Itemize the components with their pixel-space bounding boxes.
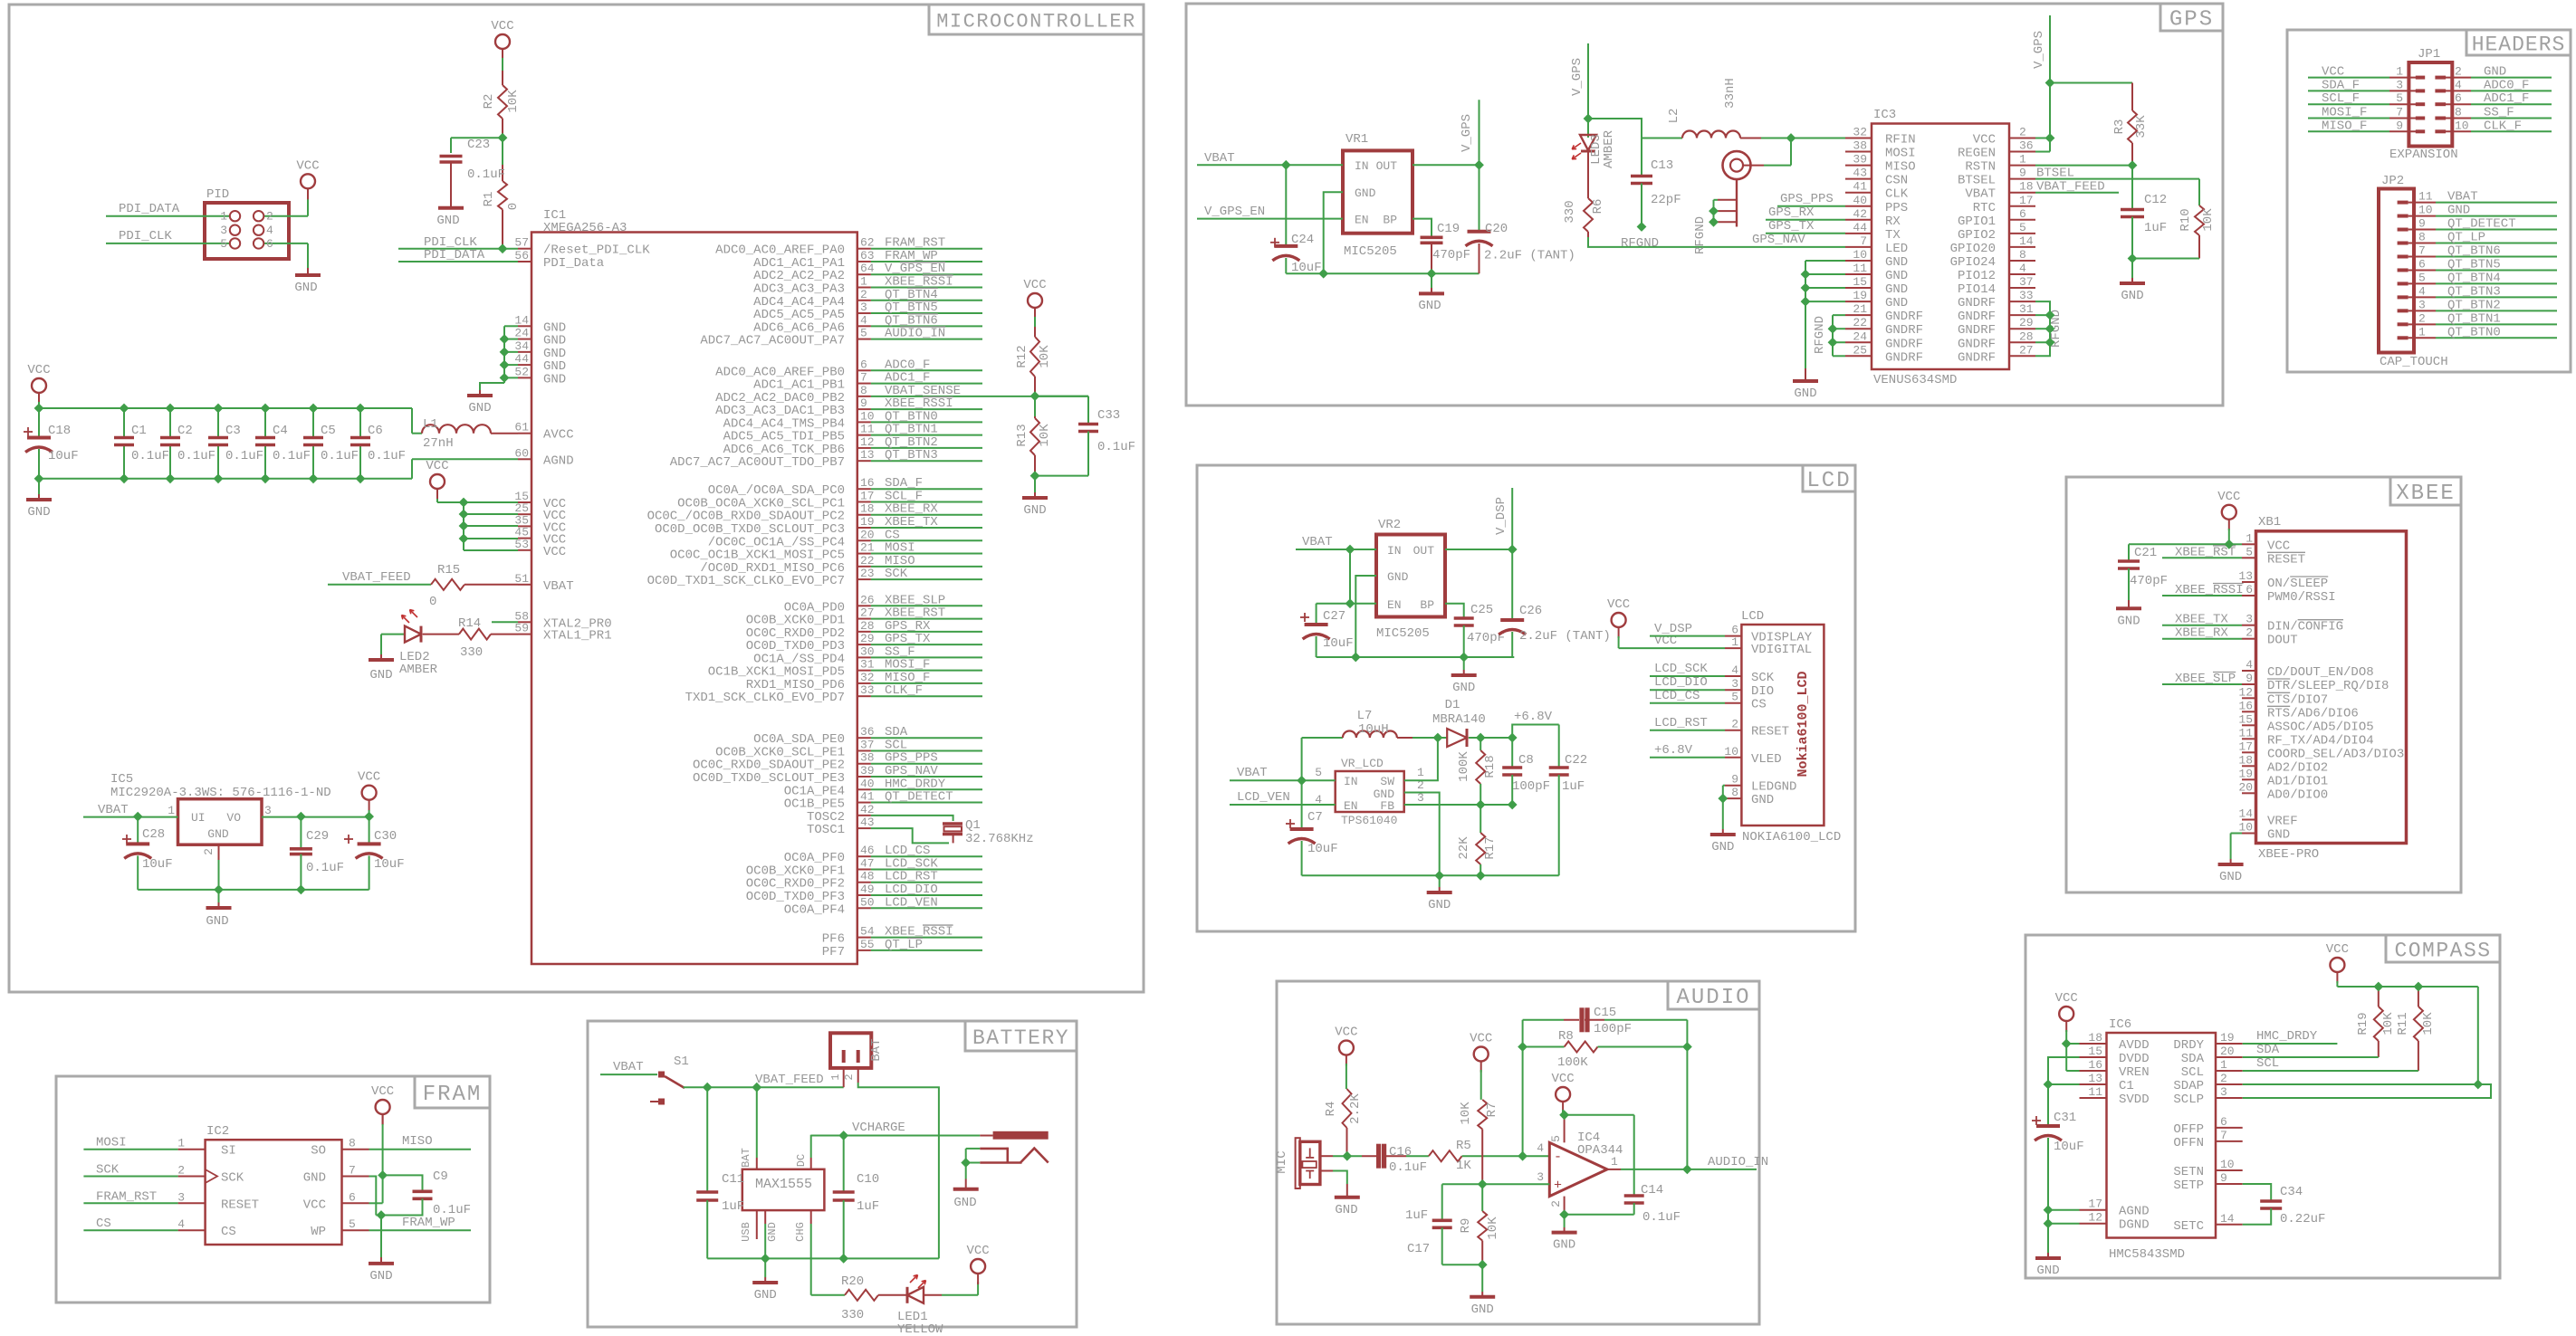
svg-text:8: 8 bbox=[860, 384, 867, 397]
svg-text:RESET: RESET bbox=[2267, 552, 2305, 567]
svg-text:IN: IN bbox=[1355, 159, 1369, 173]
svg-text:0.1uF: 0.1uF bbox=[467, 167, 505, 182]
svg-text:V_GPS: V_GPS bbox=[2032, 31, 2046, 69]
svg-text:2.2uF (TANT): 2.2uF (TANT) bbox=[1519, 629, 1611, 644]
svg-text:330: 330 bbox=[460, 645, 483, 660]
svg-text:12: 12 bbox=[860, 435, 875, 449]
svg-text:2: 2 bbox=[177, 1164, 185, 1178]
svg-text:XBEE-PRO: XBEE-PRO bbox=[2258, 847, 2319, 862]
svg-text:1: 1 bbox=[2396, 65, 2403, 79]
svg-text:22K: 22K bbox=[1457, 836, 1471, 860]
svg-text:59: 59 bbox=[514, 622, 529, 635]
svg-text:VCC: VCC bbox=[966, 1244, 989, 1258]
svg-text:OC0D_TXD1_SCK_CLKO_EVO_PC7: OC0D_TXD1_SCK_CLKO_EVO_PC7 bbox=[647, 574, 845, 588]
svg-text:AMBER: AMBER bbox=[1602, 129, 1616, 168]
svg-text:SCK: SCK bbox=[1751, 671, 1775, 685]
svg-text:GND: GND bbox=[2121, 289, 2143, 303]
svg-text:8: 8 bbox=[2019, 248, 2026, 262]
svg-text:COMPASS: COMPASS bbox=[2394, 939, 2491, 962]
svg-text:+6.8V: +6.8V bbox=[1654, 743, 1693, 758]
svg-text:44: 44 bbox=[1853, 221, 1867, 234]
svg-text:+6.8V: +6.8V bbox=[1514, 710, 1553, 724]
svg-text:20: 20 bbox=[860, 528, 875, 541]
svg-text:IN: IN bbox=[1344, 775, 1358, 788]
svg-text:VREF: VREF bbox=[2267, 815, 2298, 829]
svg-text:C8: C8 bbox=[1518, 753, 1534, 768]
svg-text:3: 3 bbox=[2396, 78, 2403, 91]
svg-text:XBEE_RST: XBEE_RST bbox=[2175, 545, 2236, 559]
svg-text:XTAL1_PR1: XTAL1_PR1 bbox=[543, 629, 612, 644]
svg-text:QT_BTN5: QT_BTN5 bbox=[2447, 257, 2501, 272]
svg-text:3: 3 bbox=[1731, 677, 1738, 691]
svg-text:C18: C18 bbox=[48, 424, 71, 438]
svg-text:C21: C21 bbox=[2134, 546, 2157, 560]
svg-text:SI: SI bbox=[221, 1144, 236, 1159]
svg-text:20: 20 bbox=[2238, 780, 2253, 794]
svg-text:QT_BTN1: QT_BTN1 bbox=[2447, 311, 2501, 326]
svg-text:GND: GND bbox=[1023, 503, 1046, 518]
svg-text:10K: 10K bbox=[1038, 345, 1052, 368]
svg-text:16: 16 bbox=[2088, 1058, 2102, 1072]
svg-text:2: 2 bbox=[860, 288, 867, 301]
svg-text:10K: 10K bbox=[506, 90, 521, 113]
svg-text:GPIO20: GPIO20 bbox=[1950, 242, 1996, 256]
svg-text:BTSEL: BTSEL bbox=[1958, 174, 1996, 188]
svg-text:VCC: VCC bbox=[2055, 991, 2078, 1006]
svg-text:1K: 1K bbox=[1456, 1159, 1471, 1173]
svg-text:56: 56 bbox=[514, 249, 529, 262]
svg-text:40: 40 bbox=[860, 777, 875, 790]
svg-text:MISO_F: MISO_F bbox=[2322, 119, 2367, 133]
svg-text:7: 7 bbox=[2220, 1129, 2227, 1142]
svg-text:VCC: VCC bbox=[2267, 539, 2290, 553]
svg-text:470pF: 470pF bbox=[2130, 574, 2168, 588]
svg-text:14: 14 bbox=[2220, 1212, 2235, 1226]
svg-text:AGND: AGND bbox=[543, 453, 574, 468]
svg-text:AUDIO_IN: AUDIO_IN bbox=[1708, 1155, 1768, 1169]
svg-text:MISO: MISO bbox=[402, 1134, 433, 1149]
svg-text:PWM0/RSSI: PWM0/RSSI bbox=[2267, 590, 2336, 605]
svg-text:1uF: 1uF bbox=[722, 1199, 744, 1214]
svg-text:10uF: 10uF bbox=[374, 857, 405, 872]
svg-text:1: 1 bbox=[860, 275, 867, 289]
svg-text:3: 3 bbox=[2418, 298, 2426, 311]
svg-text:R3: R3 bbox=[2112, 119, 2127, 135]
svg-text:3: 3 bbox=[1537, 1170, 1544, 1184]
svg-text:18: 18 bbox=[2238, 753, 2253, 767]
svg-text:JP2: JP2 bbox=[2381, 174, 2404, 188]
svg-text:3: 3 bbox=[264, 804, 272, 817]
svg-text:GNDRF: GNDRF bbox=[1958, 310, 1996, 324]
svg-text:LCD: LCD bbox=[1741, 609, 1764, 624]
svg-text:9: 9 bbox=[2246, 672, 2253, 685]
svg-text:42: 42 bbox=[1853, 207, 1867, 221]
svg-text:C5: C5 bbox=[321, 424, 336, 438]
svg-text:9: 9 bbox=[2220, 1171, 2227, 1185]
svg-text:15: 15 bbox=[1853, 275, 1867, 289]
svg-text:USB: USB bbox=[740, 1222, 752, 1242]
svg-text:SDAP: SDAP bbox=[2173, 1079, 2204, 1093]
svg-text:1: 1 bbox=[168, 804, 175, 817]
svg-text:0.1uF: 0.1uF bbox=[177, 449, 215, 463]
svg-text:GPIO2: GPIO2 bbox=[1958, 228, 1996, 243]
svg-text:ASSOC/AD5/DIO5: ASSOC/AD5/DIO5 bbox=[2267, 720, 2374, 734]
svg-text:R10: R10 bbox=[2179, 208, 2193, 231]
svg-text:37: 37 bbox=[2019, 275, 2034, 289]
svg-text:LCD_SCK: LCD_SCK bbox=[1654, 662, 1708, 676]
svg-text:VCC: VCC bbox=[2217, 490, 2240, 504]
svg-text:QT_BTN4: QT_BTN4 bbox=[2447, 271, 2501, 285]
svg-text:34: 34 bbox=[514, 339, 529, 353]
svg-text:44: 44 bbox=[514, 352, 529, 366]
svg-text:1: 1 bbox=[829, 1074, 842, 1080]
svg-text:5: 5 bbox=[1315, 766, 1322, 779]
svg-text:R5: R5 bbox=[1456, 1139, 1471, 1153]
svg-text:33K: 33K bbox=[2134, 115, 2149, 138]
svg-text:32.768KHz: 32.768KHz bbox=[965, 832, 1034, 846]
svg-text:HMC_DRDY: HMC_DRDY bbox=[2256, 1029, 2318, 1044]
svg-text:EN: EN bbox=[1355, 214, 1369, 227]
svg-text:10uF: 10uF bbox=[1323, 636, 1354, 651]
svg-text:4: 4 bbox=[2019, 262, 2026, 275]
svg-text:37: 37 bbox=[860, 738, 875, 751]
svg-text:11: 11 bbox=[1853, 262, 1867, 275]
svg-text:GNDRF: GNDRF bbox=[1958, 296, 1996, 310]
svg-text:11: 11 bbox=[2088, 1085, 2102, 1099]
svg-text:GND: GND bbox=[2267, 828, 2290, 843]
svg-text:VR_LCD: VR_LCD bbox=[1341, 757, 1384, 770]
svg-text:19: 19 bbox=[2220, 1031, 2235, 1045]
svg-text:5: 5 bbox=[1731, 691, 1738, 704]
svg-text:BTSEL: BTSEL bbox=[2036, 167, 2074, 181]
svg-text:19: 19 bbox=[1853, 289, 1867, 302]
svg-text:RTC: RTC bbox=[1973, 201, 1996, 215]
svg-text:14: 14 bbox=[2238, 807, 2253, 821]
svg-text:9: 9 bbox=[1731, 773, 1738, 787]
svg-text:AVDD: AVDD bbox=[2119, 1038, 2150, 1053]
svg-text:53: 53 bbox=[514, 538, 529, 551]
svg-text:C14: C14 bbox=[1641, 1183, 1663, 1198]
svg-text:CTS/DIO7: CTS/DIO7 bbox=[2267, 692, 2328, 707]
svg-text:10K: 10K bbox=[2421, 1012, 2436, 1035]
svg-text:VBAT: VBAT bbox=[1302, 535, 1333, 549]
svg-text:1: 1 bbox=[1417, 766, 1424, 779]
svg-text:24: 24 bbox=[1853, 329, 1867, 343]
svg-text:4: 4 bbox=[2455, 78, 2462, 91]
svg-text:C30: C30 bbox=[374, 829, 397, 844]
svg-text:28: 28 bbox=[2019, 329, 2034, 343]
svg-text:C33: C33 bbox=[1097, 408, 1120, 423]
svg-text:43: 43 bbox=[1853, 167, 1867, 180]
svg-text:V_GPS_EN: V_GPS_EN bbox=[1204, 205, 1265, 219]
svg-text:C9: C9 bbox=[433, 1169, 448, 1184]
svg-text:10: 10 bbox=[1853, 248, 1867, 262]
svg-text:1: 1 bbox=[220, 210, 227, 224]
svg-text:C2: C2 bbox=[177, 424, 193, 438]
svg-text:330: 330 bbox=[841, 1308, 864, 1322]
svg-text:C11: C11 bbox=[722, 1172, 744, 1187]
svg-text:2.2K: 2.2K bbox=[1348, 1093, 1363, 1124]
svg-text:VLED: VLED bbox=[1751, 752, 1782, 767]
svg-text:49: 49 bbox=[860, 883, 875, 896]
svg-text:VO: VO bbox=[226, 811, 241, 825]
svg-text:AGND: AGND bbox=[2119, 1205, 2150, 1219]
svg-text:21: 21 bbox=[860, 541, 875, 555]
svg-text:AD1/DIO1: AD1/DIO1 bbox=[2267, 774, 2328, 788]
svg-text:10K: 10K bbox=[2381, 1012, 2396, 1035]
svg-text:330: 330 bbox=[1563, 200, 1577, 223]
svg-text:1: 1 bbox=[177, 1137, 185, 1150]
svg-text:1uF: 1uF bbox=[857, 1199, 879, 1214]
svg-text:0.1uF: 0.1uF bbox=[321, 449, 359, 463]
svg-text:GND: GND bbox=[1751, 793, 1774, 807]
svg-text:GPS_TX: GPS_TX bbox=[1768, 219, 1815, 234]
svg-text:6: 6 bbox=[266, 237, 273, 251]
svg-text:V_DSP: V_DSP bbox=[1494, 497, 1508, 535]
svg-text:VCC: VCC bbox=[2326, 942, 2349, 957]
svg-text:OUT: OUT bbox=[1376, 159, 1398, 173]
svg-text:XB1: XB1 bbox=[2258, 515, 2281, 530]
svg-text:GND: GND bbox=[303, 1171, 326, 1186]
svg-text:QT_DETECT: QT_DETECT bbox=[885, 790, 953, 805]
svg-text:GNDRF: GNDRF bbox=[1958, 350, 1996, 365]
svg-text:C28: C28 bbox=[142, 827, 165, 842]
svg-text:11: 11 bbox=[860, 423, 875, 436]
svg-text:LCD_VEN: LCD_VEN bbox=[1237, 790, 1290, 805]
svg-text:D1: D1 bbox=[1445, 698, 1460, 712]
svg-text:REGEN: REGEN bbox=[1958, 147, 1996, 161]
svg-text:CLK_F: CLK_F bbox=[2484, 119, 2522, 133]
svg-text:10uF: 10uF bbox=[2054, 1140, 2084, 1154]
svg-text:IN: IN bbox=[1387, 544, 1402, 558]
svg-text:GNDRF: GNDRF bbox=[1885, 323, 1923, 338]
svg-text:2: 2 bbox=[843, 1074, 856, 1080]
svg-text:48: 48 bbox=[860, 870, 875, 883]
svg-text:C20: C20 bbox=[1485, 222, 1508, 236]
svg-text:R9: R9 bbox=[1459, 1218, 1473, 1234]
svg-text:GNDRF: GNDRF bbox=[1885, 350, 1923, 365]
svg-text:16: 16 bbox=[860, 476, 875, 490]
svg-text:PPS: PPS bbox=[1885, 201, 1908, 215]
svg-text:VR1: VR1 bbox=[1345, 132, 1368, 147]
svg-text:GPIO24: GPIO24 bbox=[1950, 255, 1996, 270]
svg-text:9: 9 bbox=[2418, 217, 2426, 231]
svg-text:GND: GND bbox=[2117, 614, 2140, 628]
svg-text:10: 10 bbox=[1724, 745, 1738, 759]
svg-text:R18: R18 bbox=[1483, 755, 1498, 778]
svg-text:10K: 10K bbox=[2201, 208, 2216, 232]
svg-text:21: 21 bbox=[1853, 302, 1867, 316]
svg-text:10uH: 10uH bbox=[1358, 722, 1389, 737]
svg-text:18: 18 bbox=[2019, 180, 2034, 194]
svg-text:57: 57 bbox=[514, 236, 529, 250]
svg-text:8: 8 bbox=[2455, 106, 2462, 119]
svg-text:VCC: VCC bbox=[358, 770, 380, 785]
svg-text:39: 39 bbox=[860, 764, 875, 778]
svg-text:C10: C10 bbox=[857, 1172, 879, 1187]
svg-text:GND: GND bbox=[207, 827, 229, 841]
svg-text:BP: BP bbox=[1420, 598, 1434, 612]
svg-text:SETP: SETP bbox=[2173, 1179, 2204, 1193]
svg-text:RFGND: RFGND bbox=[1621, 236, 1659, 251]
svg-text:SDA: SDA bbox=[2256, 1043, 2280, 1057]
svg-text:13: 13 bbox=[2238, 569, 2253, 583]
svg-text:COORD_SEL/AD3/DIO3: COORD_SEL/AD3/DIO3 bbox=[2267, 747, 2404, 761]
svg-text:17: 17 bbox=[2088, 1198, 2102, 1211]
svg-text:AVCC: AVCC bbox=[543, 428, 574, 443]
svg-text:XBEE: XBEE bbox=[2396, 482, 2456, 506]
svg-text:EN: EN bbox=[1344, 799, 1358, 813]
svg-text:VCC: VCC bbox=[371, 1084, 394, 1099]
svg-text:C27: C27 bbox=[1323, 609, 1345, 624]
svg-text:V_GPS: V_GPS bbox=[1460, 114, 1474, 152]
svg-text:10: 10 bbox=[2418, 204, 2433, 217]
svg-text:4: 4 bbox=[1537, 1141, 1544, 1155]
svg-text:VBAT_FEED: VBAT_FEED bbox=[2036, 180, 2105, 195]
svg-text:C16: C16 bbox=[1389, 1145, 1412, 1159]
svg-text:SDA: SDA bbox=[2181, 1052, 2205, 1066]
svg-text:MOSI_F: MOSI_F bbox=[2322, 106, 2367, 120]
svg-text:SVDD: SVDD bbox=[2119, 1093, 2150, 1107]
svg-text:AUDIO: AUDIO bbox=[1676, 986, 1750, 1010]
svg-text:5: 5 bbox=[860, 327, 867, 340]
svg-text:43: 43 bbox=[860, 816, 875, 829]
svg-text:PDI_DATA: PDI_DATA bbox=[119, 202, 180, 216]
svg-text:DRDY: DRDY bbox=[2173, 1038, 2204, 1053]
svg-text:VCC: VCC bbox=[27, 363, 50, 377]
svg-text:23: 23 bbox=[860, 567, 875, 580]
svg-text:46: 46 bbox=[860, 844, 875, 857]
svg-text:R13: R13 bbox=[1015, 424, 1029, 446]
svg-text:CS: CS bbox=[96, 1217, 111, 1231]
svg-text:LED: LED bbox=[1885, 242, 1908, 256]
svg-text:5: 5 bbox=[220, 237, 227, 251]
svg-text:14: 14 bbox=[514, 313, 529, 327]
svg-text:TXD1_SCK_CLKO_EVO_PD7: TXD1_SCK_CLKO_EVO_PD7 bbox=[685, 691, 845, 705]
svg-text:GND: GND bbox=[369, 668, 392, 682]
svg-text:3: 3 bbox=[2220, 1085, 2227, 1099]
svg-text:MBRA140: MBRA140 bbox=[1432, 712, 1486, 727]
svg-text:SDA_F: SDA_F bbox=[2322, 78, 2360, 92]
svg-text:10uF: 10uF bbox=[1307, 842, 1338, 856]
svg-text:VREN: VREN bbox=[2119, 1065, 2150, 1080]
svg-text:10: 10 bbox=[2238, 821, 2253, 835]
svg-text:NOKIA6100_LCD: NOKIA6100_LCD bbox=[1742, 830, 1841, 845]
svg-text:OUT: OUT bbox=[1413, 544, 1435, 558]
svg-text:HMC5843SMD: HMC5843SMD bbox=[2109, 1247, 2185, 1262]
svg-text:C13: C13 bbox=[1651, 158, 1673, 173]
svg-text:DIN/CONFIG: DIN/CONFIG bbox=[2267, 620, 2343, 635]
svg-text:OC0A_PF4: OC0A_PF4 bbox=[784, 902, 845, 917]
svg-text:6: 6 bbox=[2418, 257, 2426, 271]
svg-text:OFFN: OFFN bbox=[2173, 1136, 2204, 1150]
svg-text:R20: R20 bbox=[841, 1274, 864, 1289]
svg-text:R14: R14 bbox=[458, 616, 481, 631]
svg-text:CSN: CSN bbox=[1885, 174, 1908, 188]
svg-text:18: 18 bbox=[2088, 1031, 2102, 1045]
svg-text:CLK_F: CLK_F bbox=[885, 683, 923, 698]
svg-text:MIC5205: MIC5205 bbox=[1344, 244, 1397, 259]
svg-text:OPA344: OPA344 bbox=[1577, 1143, 1623, 1158]
svg-text:27nH: 27nH bbox=[423, 436, 454, 451]
svg-text:C34: C34 bbox=[2280, 1185, 2303, 1199]
svg-text:GPS_RX: GPS_RX bbox=[1768, 205, 1815, 220]
svg-text:GND: GND bbox=[27, 505, 50, 520]
svg-text:XBEE_RSSI: XBEE_RSSI bbox=[2175, 583, 2244, 597]
svg-text:MOSI: MOSI bbox=[1885, 147, 1916, 161]
svg-text:1uF: 1uF bbox=[1405, 1208, 1428, 1223]
svg-text:0.22uF: 0.22uF bbox=[2280, 1212, 2325, 1226]
svg-text:AD0/DIO0: AD0/DIO0 bbox=[2267, 787, 2328, 802]
svg-text:GPS_NAV: GPS_NAV bbox=[1752, 233, 1805, 247]
svg-text:4: 4 bbox=[2418, 284, 2426, 298]
svg-text:22: 22 bbox=[1853, 316, 1867, 329]
svg-text:6: 6 bbox=[2455, 91, 2462, 105]
svg-text:28: 28 bbox=[860, 619, 875, 633]
svg-text:11: 11 bbox=[2418, 190, 2433, 204]
svg-text:1: 1 bbox=[2246, 531, 2253, 545]
svg-text:VCC: VCC bbox=[426, 459, 448, 473]
svg-text:30: 30 bbox=[860, 644, 875, 658]
svg-text:DOUT: DOUT bbox=[2267, 634, 2298, 648]
svg-text:CS: CS bbox=[1751, 698, 1767, 712]
svg-text:RX: RX bbox=[1885, 215, 1901, 229]
svg-text:VCHARGE: VCHARGE bbox=[852, 1121, 905, 1135]
svg-text:38: 38 bbox=[1853, 139, 1867, 153]
svg-text:GND: GND bbox=[2484, 65, 2506, 80]
svg-text:0.1uF: 0.1uF bbox=[225, 449, 263, 463]
svg-text:S1: S1 bbox=[674, 1054, 689, 1069]
svg-text:6: 6 bbox=[2220, 1115, 2227, 1129]
svg-text:C29: C29 bbox=[306, 829, 329, 844]
svg-text:C26: C26 bbox=[1519, 604, 1542, 618]
svg-text:AD2/DIO2: AD2/DIO2 bbox=[2267, 760, 2328, 775]
svg-text:PIO12: PIO12 bbox=[1958, 269, 1996, 283]
svg-text:SETN: SETN bbox=[2173, 1165, 2204, 1179]
svg-text:DC: DC bbox=[795, 1154, 808, 1167]
svg-text:32: 32 bbox=[860, 671, 875, 684]
svg-text:1: 1 bbox=[1731, 635, 1738, 649]
svg-text:R7: R7 bbox=[1485, 1102, 1499, 1118]
svg-text:32: 32 bbox=[1853, 126, 1867, 139]
svg-text:8: 8 bbox=[1731, 786, 1738, 799]
svg-text:VBAT: VBAT bbox=[1204, 151, 1235, 166]
svg-text:LCD_RST: LCD_RST bbox=[1654, 716, 1708, 730]
svg-text:6: 6 bbox=[349, 1190, 356, 1204]
svg-text:R19: R19 bbox=[2356, 1012, 2370, 1035]
svg-text:GND: GND bbox=[1335, 1203, 1357, 1217]
svg-text:RESET: RESET bbox=[221, 1198, 259, 1212]
svg-text:MOSI: MOSI bbox=[96, 1136, 127, 1150]
svg-text:UI: UI bbox=[191, 811, 206, 825]
svg-text:BAT: BAT bbox=[740, 1148, 752, 1168]
svg-text:FRAM: FRAM bbox=[423, 1083, 483, 1107]
svg-text:HEADERS: HEADERS bbox=[2472, 33, 2566, 56]
svg-text:GND: GND bbox=[2447, 204, 2470, 218]
svg-text:54: 54 bbox=[860, 925, 875, 939]
svg-text:6: 6 bbox=[2246, 583, 2253, 596]
svg-text:38: 38 bbox=[860, 751, 875, 765]
svg-text:GND: GND bbox=[206, 914, 228, 929]
svg-text:2: 2 bbox=[266, 210, 273, 224]
svg-text:AUDIO_IN: AUDIO_IN bbox=[885, 327, 945, 341]
svg-text:25: 25 bbox=[1853, 343, 1867, 357]
svg-text:C1: C1 bbox=[131, 424, 147, 438]
svg-text:33: 33 bbox=[2019, 289, 2034, 302]
svg-text:AMBER: AMBER bbox=[399, 663, 438, 677]
svg-text:V_DSP: V_DSP bbox=[1654, 622, 1692, 636]
svg-text:17: 17 bbox=[2238, 740, 2253, 753]
